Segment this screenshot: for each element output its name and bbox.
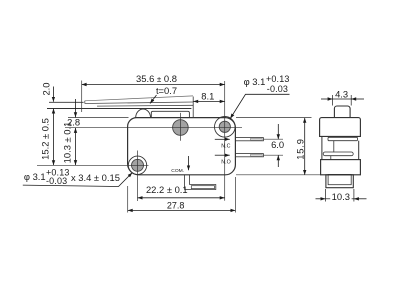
svg-text:6.0: 6.0	[271, 139, 284, 150]
svg-text:-0.03: -0.03	[46, 176, 67, 186]
svg-text:10.3: 10.3	[332, 191, 350, 202]
svg-text:10.3 ± 0.1: 10.3 ± 0.1	[61, 122, 72, 164]
svg-text:27.8: 27.8	[167, 201, 185, 211]
svg-text:35.6 ± 0.8: 35.6 ± 0.8	[136, 73, 177, 84]
svg-text:t=0.7: t=0.7	[156, 85, 177, 96]
svg-text:φ 3.1: φ 3.1	[24, 171, 46, 182]
svg-text:φ 3.1: φ 3.1	[244, 76, 266, 87]
svg-text:2.0: 2.0	[41, 82, 52, 95]
svg-text:N.C: N.C	[221, 143, 230, 149]
svg-text:2.8: 2.8	[67, 117, 80, 128]
svg-text:COM.: COM.	[171, 168, 184, 174]
svg-text:-0.03: -0.03	[267, 84, 288, 94]
svg-text:15.9: 15.9	[294, 138, 305, 159]
svg-text:22.2 ± 0.1: 22.2 ± 0.1	[146, 184, 188, 195]
svg-text:N.O: N.O	[221, 159, 230, 165]
svg-text:+0.13: +0.13	[266, 74, 290, 84]
svg-text:4.3: 4.3	[335, 88, 348, 99]
svg-text:8.1: 8.1	[201, 90, 214, 101]
svg-text:x 3.4 ± 0.15: x 3.4 ± 0.15	[71, 172, 120, 183]
svg-text:15.2 ± 0.5: 15.2 ± 0.5	[40, 118, 51, 160]
